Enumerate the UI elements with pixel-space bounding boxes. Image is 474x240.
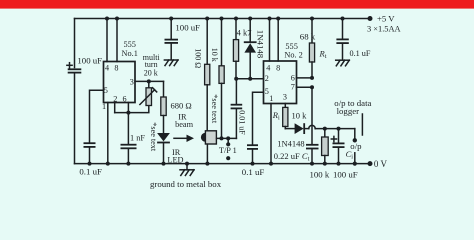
svg-text:10 k: 10 k	[210, 48, 219, 62]
wire IC1 pin2 down	[114, 103, 116, 113]
svg-text:4 k7: 4 k7	[237, 28, 252, 38]
resistor VR1 20k multiturn pot body	[146, 88, 152, 106]
wire 0.01uF column lower	[235, 109, 237, 138]
svg-text:0 V: 0 V	[374, 159, 388, 169]
svg-text:1N4148: 1N4148	[256, 30, 266, 59]
capacitor Ct 0.22uF	[306, 145, 319, 149]
pin labels IC2	[265, 63, 295, 103]
svg-text:3: 3	[130, 78, 134, 87]
wire IC1 pin1 to 0V rail	[107, 103, 109, 164]
wire OUT row photomodule to 0.01uF	[217, 137, 237, 139]
wire IC2 pin1 to 0V	[270, 104, 272, 164]
svg-text:100 uF: 100 uF	[333, 170, 358, 180]
capacitor 100uF (left electrolytic)	[67, 63, 81, 73]
op-amp U1 555 No.1 body	[104, 62, 136, 103]
capacitor 0.1uF (IC1 pin5)	[84, 143, 96, 147]
capacitor Ci 100uF	[331, 136, 344, 147]
wire IC1 pin6 down	[127, 103, 129, 113]
resistor 10k (pullup)	[219, 66, 224, 84]
resistor Ri 10k	[283, 107, 288, 126]
IR beam arrow	[174, 135, 194, 142]
pot wiper diagonal with T bar	[140, 90, 155, 105]
wire 0V bottom rail	[75, 163, 371, 165]
svg-text:100 uF: 100 uF	[77, 56, 102, 66]
node 0V terminal	[368, 161, 373, 166]
svg-text:1N4148: 1N4148	[277, 138, 304, 148]
svg-text:5: 5	[104, 86, 108, 95]
svg-text:4: 4	[266, 63, 270, 72]
resistor 4k7	[233, 40, 238, 62]
svg-text:0.22 uF Ct: 0.22 uF Ct	[274, 151, 310, 163]
resistor 680 ohm	[161, 97, 166, 116]
svg-text:0.01 uF: 0.01 uF	[238, 110, 247, 135]
wire IC2 pin5 to decoupling cap	[253, 92, 264, 144]
svg-text:6: 6	[291, 73, 295, 82]
wire +5V top rail	[75, 18, 371, 20]
svg-text:20 k: 20 k	[144, 69, 158, 78]
svg-text:1: 1	[269, 94, 273, 103]
capacitor 0.01uF	[231, 105, 243, 109]
svg-text:100 uF: 100 uF	[175, 23, 200, 33]
svg-text:LED: LED	[167, 156, 183, 165]
wire 4k7 column from rail	[235, 19, 237, 40]
ground chassis (middle top)	[164, 60, 178, 66]
svg-text:3 ×1.5AA: 3 ×1.5AA	[367, 25, 401, 34]
wire pin3 row down to 680R	[163, 81, 165, 97]
svg-text:100 Ω: 100 Ω	[193, 48, 202, 68]
wire 680R to LED	[163, 116, 165, 134]
wire left edge branch (100uF C1 leg)	[74, 19, 76, 68]
wire Ri to diode	[285, 128, 294, 130]
diode D2 1N4148 clamp	[244, 42, 257, 52]
wire IC1 pin8 to rail	[116, 19, 118, 62]
capacitor 0.1uF decoupling (top right) leg	[342, 19, 344, 39]
svg-text:100 k: 100 k	[310, 170, 330, 180]
ground chassis (top right)	[336, 60, 350, 66]
diode D3 1N4148 output	[295, 123, 305, 134]
wire IC2 pin6 row	[297, 77, 313, 79]
resistor 100k	[322, 137, 329, 156]
svg-text:10 k: 10 k	[292, 111, 308, 121]
svg-text:8: 8	[276, 63, 280, 72]
capacitor 100uF (middle, to chassis) leg	[170, 19, 172, 39]
capacitor 1nF	[121, 145, 137, 149]
svg-text:3: 3	[283, 93, 287, 102]
wire 10k column	[221, 19, 223, 66]
ground chassis to metal box	[180, 162, 194, 176]
svg-text:T/P 1: T/P 1	[219, 146, 237, 155]
wire 10k down to OUT row	[221, 83, 223, 138]
svg-text:+5 V: +5 V	[377, 14, 395, 24]
svg-text:8: 8	[114, 64, 118, 73]
node T/P ground dot	[226, 156, 230, 160]
resistor 100 ohm	[205, 64, 210, 85]
resistor Rt 68k	[309, 43, 314, 62]
svg-text:No. 2: No. 2	[284, 50, 302, 59]
transistor T1 IR photo module	[201, 131, 217, 144]
wire IC2 pin7 row	[297, 86, 313, 88]
wire output corner to o/p terminal	[354, 129, 356, 139]
red header band	[0, 0, 474, 9]
svg-text:68 k: 68 k	[300, 32, 316, 42]
wire o/p ground stub	[354, 153, 356, 164]
svg-text:0.1 uF: 0.1 uF	[242, 167, 265, 177]
svg-text:No.1: No.1	[122, 49, 138, 58]
svg-text:1 nF: 1 nF	[130, 134, 145, 143]
wire IC1 pin5 to decoupling cap	[90, 90, 104, 142]
svg-text:*see text: *see text	[210, 94, 219, 124]
diode D1 IR LED	[157, 133, 170, 143]
svg-text:555: 555	[124, 40, 136, 49]
svg-text:4: 4	[105, 64, 109, 73]
svg-text:o/p: o/p	[350, 141, 362, 151]
wire pin6 node down to 1nF	[127, 113, 129, 144]
svg-text:*see text: *see text	[149, 122, 158, 152]
pin labels IC1	[102, 64, 134, 111]
svg-text:680 Ω: 680 Ω	[171, 101, 192, 111]
capacitor 0.1uF (IC2 pin5)	[247, 145, 258, 149]
leader line data logger	[361, 114, 363, 135]
svg-text:logger: logger	[337, 106, 360, 116]
svg-text:2: 2	[265, 74, 269, 83]
svg-text:1: 1	[102, 102, 106, 111]
node +5V terminal	[368, 16, 373, 21]
wire IC1 pin3 output row	[135, 80, 164, 82]
wire IC2 pin2 row	[236, 78, 264, 80]
svg-text:0.1 uF: 0.1 uF	[79, 167, 102, 177]
wire IC2 pin8 to rail	[277, 19, 279, 62]
svg-text:6: 6	[123, 95, 127, 104]
svg-text:0.1 uF: 0.1 uF	[350, 49, 371, 58]
wire 100k column	[324, 129, 326, 137]
svg-text:ground to metal box: ground to metal box	[150, 179, 222, 189]
wire output row with hop over timing column	[304, 128, 309, 130]
wire Rt 68k column from rail	[311, 19, 313, 44]
wire pot top	[148, 81, 150, 87]
wire Ci column	[338, 129, 340, 143]
svg-text:beam: beam	[175, 120, 194, 129]
node T/P 1 stub	[226, 136, 230, 140]
wire timing node down to Ct	[311, 87, 313, 144]
wire 100R column	[206, 19, 208, 65]
wire photomodule emitter to 0V	[206, 144, 208, 163]
wire IC2 pin4 to rail	[269, 19, 271, 62]
wire IC1 pin4 to rail	[106, 19, 108, 62]
op-amp U2 555 No.2 body	[264, 61, 297, 104]
svg-text:7: 7	[291, 83, 295, 92]
wire clamp diode column from rail	[249, 19, 251, 43]
wire IC2 pin3 down	[284, 104, 286, 108]
wire pins 2/6 to pot bottom	[115, 106, 149, 113]
wire 100R to photomodule	[206, 85, 208, 131]
